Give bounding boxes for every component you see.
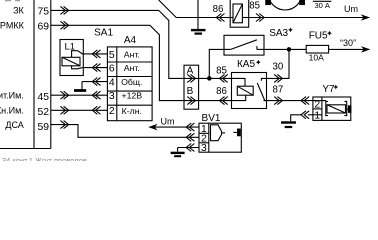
svg-text:45: 45 (38, 92, 50, 103)
wire Um arrow to BV1 pin 1 (148, 123, 199, 131)
KA5 pin 86 (216, 86, 228, 105)
svg-text:2: 2 (109, 106, 115, 117)
A4 pin 6 Ant (109, 63, 140, 74)
svg-text:Y7: Y7 (322, 84, 335, 95)
svg-text:30 А: 30 А (314, 1, 329, 10)
svg-text:1: 1 (314, 111, 320, 122)
net label Pit.Im. (Пит.Им.) (0, 91, 24, 101)
svg-text:Ант.: Ант. (124, 63, 140, 73)
svg-text:Кн.Им.: Кн.Им. (0, 106, 24, 116)
ground at relay coil 86 wire (191, 0, 206, 34)
svg-text:75: 75 (38, 6, 50, 17)
label 10A (309, 53, 324, 63)
label SA1 (94, 28, 113, 39)
svg-text:4: 4 (109, 78, 115, 89)
svg-text:FU5: FU5 (309, 31, 328, 42)
wire junction up to switch SA3 (209, 49, 224, 78)
A4 pin 3 +12V (109, 91, 142, 102)
pin label 85 of top relay (249, 1, 264, 22)
svg-text:6: 6 (109, 64, 115, 75)
Y7 pin 1 label (314, 111, 320, 122)
svg-text:BV1: BV1 (202, 113, 221, 124)
pin 59 (38, 122, 50, 133)
svg-text:52: 52 (38, 107, 50, 118)
ground at Y7 pin 1 (281, 123, 296, 128)
label SA3* (269, 27, 293, 38)
svg-text:РМКК: РМКК (0, 21, 25, 31)
svg-text:86: 86 (213, 4, 224, 15)
contact A (187, 66, 196, 83)
svg-text:SA1: SA1 (94, 28, 113, 39)
svg-text:А4: А4 (124, 35, 137, 46)
radio unit A4 label (124, 35, 137, 46)
svg-text:59: 59 (38, 122, 50, 133)
label KA5* (237, 59, 261, 70)
pin label 86 of top relay (213, 4, 225, 22)
svg-text:3: 3 (201, 143, 207, 154)
label Um top right (344, 4, 358, 14)
net label Kn.Im. (Кн.Им.) (0, 106, 24, 116)
net label DSA (ДСА) (5, 120, 23, 130)
wire net 69 to contact B and relay KA5 pin 86 (51, 21, 232, 100)
wire relay 85 to Um arrow right (249, 14, 370, 21)
BV1 speaker symbol (211, 125, 241, 141)
node junction SA3-FU5-KA5.30 (287, 48, 290, 51)
svg-text:86: 86 (216, 86, 227, 97)
svg-text:К-лн.: К-лн. (122, 106, 142, 116)
svg-text:85: 85 (249, 1, 260, 12)
label BV1 (202, 113, 221, 124)
electromagnet Y7 box (313, 97, 351, 120)
svg-text:Ант.: Ант. (124, 49, 140, 59)
pin 75 (38, 6, 50, 17)
svg-text:Общ.: Общ. (121, 77, 142, 87)
wire ground to BV1 pin 3 (178, 144, 199, 152)
wire net 52 to A4 pin 2 (51, 106, 107, 114)
svg-text:Um: Um (344, 4, 358, 14)
svg-text:КА5: КА5 (237, 59, 255, 70)
svg-text:SA3: SA3 (269, 28, 288, 39)
relay KA5 contact (257, 78, 266, 100)
svg-text:2: 2 (314, 99, 320, 110)
svg-text:ЗК: ЗК (13, 6, 24, 16)
antenna L1 (60, 40, 107, 76)
electromagnet Y7 coil (326, 101, 351, 115)
connector X1 left column frame (0, 0, 51, 149)
switch SA3 (224, 35, 264, 55)
cut-off text bottom left (2, 156, 87, 165)
label Um at BV1 wire (161, 117, 175, 127)
relay coil K (top, cut off) (230, 0, 249, 27)
svg-text:30: 30 (273, 62, 284, 73)
svg-text:85: 85 (216, 65, 227, 76)
A4 pin 2 K-ln (109, 106, 142, 117)
svg-text:“30”: “30” (340, 38, 356, 48)
node junction at A wire (208, 77, 211, 80)
horn/motor circle (cut off at top) (266, 0, 305, 10)
relay KA5 coil (232, 78, 254, 100)
wire from top edge to relay coil pin 86 with ground tap (159, 0, 231, 18)
A4 pin 4 Obsch (109, 77, 143, 88)
wire KA5 30 up to node (267, 49, 290, 78)
KA5 pin 87 (273, 85, 284, 105)
wire SA3 to fuse FU5 (264, 48, 306, 50)
net label ZK (ЗК) (13, 6, 24, 16)
wire FU5 to output 30 (329, 46, 371, 53)
sound unit BV1 box (199, 123, 241, 152)
svg-text:В: В (187, 86, 194, 97)
svg-text:87: 87 (273, 85, 284, 96)
label FU5* (309, 31, 332, 42)
BV1 pin 3 label (201, 143, 207, 154)
ground to A4 pin 4 (chassis) (74, 78, 107, 91)
svg-text:10А: 10А (309, 53, 324, 63)
svg-text:34 конт.1 Жгут проводов: 34 конт.1 Жгут проводов (2, 156, 87, 161)
BV1 pin 1 label (201, 124, 207, 135)
ground at BV1 pin 3 (171, 153, 185, 156)
label Y7* (322, 84, 338, 95)
A4 pin 5 Ant (109, 49, 140, 60)
pin 52 (38, 107, 50, 118)
wire net 59 to BV1 pin 2 (51, 121, 199, 142)
svg-text:+12В: +12В (122, 91, 143, 101)
connector A/B box (184, 65, 199, 109)
contact B (187, 86, 196, 105)
BV1 pin 2 label (201, 134, 207, 145)
cut-off marks top left (5, 0, 20, 2)
wire Y7 pin 1 to ground (291, 111, 322, 122)
Y7 pin 2 label (314, 99, 320, 110)
svg-text:ДСА: ДСА (5, 120, 23, 130)
fuse 30A (cut off at top) (313, 1, 332, 10)
KA5 pin 30 (273, 62, 284, 83)
relay KA5 box (232, 73, 267, 109)
fuse FU5 (306, 45, 328, 53)
svg-text:Um: Um (161, 117, 175, 127)
svg-text:5: 5 (109, 50, 115, 61)
pin 69 (38, 21, 50, 32)
wire net 75 to contact A and relay KA5 pin 85 (51, 6, 232, 78)
label "30" (340, 38, 356, 48)
pin 45 (38, 92, 50, 103)
svg-text:69: 69 (38, 21, 50, 32)
KA5 pin 85 (216, 65, 228, 82)
wire KA5 87 to Y7 pin 2 (267, 97, 327, 105)
wire net 45 to A4 pin 3 (51, 91, 107, 99)
net label RMKK (РМКК) (0, 21, 25, 31)
svg-text:3: 3 (109, 91, 115, 102)
svg-text:Пит.Им.: Пит.Им. (0, 91, 24, 101)
radio unit A4 terminal table (107, 47, 152, 121)
